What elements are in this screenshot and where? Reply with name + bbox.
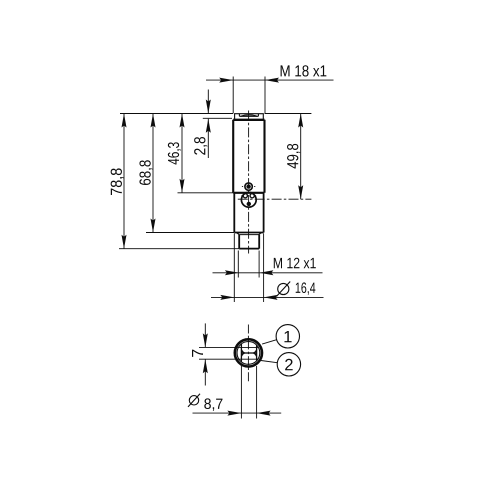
dimension M18 x1 — [206, 77, 334, 114]
LED indicator — [242, 183, 255, 190]
body section line — [233, 192, 264, 194]
dimension diameter 8.7 — [193, 366, 282, 419]
vertical centerline of body — [248, 111, 250, 254]
bottom view vertical centerline — [247, 325, 249, 382]
chamfer to stub — [236, 233, 261, 235]
extension line 78.8 bottom — [119, 248, 239, 250]
plug end view inner circle — [237, 342, 260, 365]
sensor cap / sensing face — [235, 114, 264, 120]
dimension 7 — [199, 323, 258, 385]
dimension 49.8 — [298, 114, 303, 200]
extension line 46.3 bottom — [178, 192, 234, 194]
dimension diameter 16.4 — [211, 234, 324, 303]
pin balloon 1 — [276, 325, 299, 348]
plug keyed profile — [241, 344, 256, 362]
extension line cap top left — [120, 113, 233, 115]
leader to pin balloon 1 — [262, 340, 277, 344]
main body M18 barrel — [233, 120, 264, 193]
lower body section — [234, 193, 263, 233]
dimension 46.3 — [180, 114, 185, 193]
leader to pin balloon 2 — [261, 361, 277, 363]
extension line 68.8 bottom — [146, 232, 234, 234]
dimension M12 x1 — [213, 251, 323, 278]
extension line body top — [203, 117, 232, 119]
horizontal centerline through connector — [238, 198, 312, 200]
pin balloon 2 — [277, 353, 300, 376]
dimension 2.8 — [206, 90, 211, 159]
plug end view outer circle — [235, 339, 262, 366]
M12 plug stub — [239, 235, 259, 249]
dimension 68.8 — [151, 114, 156, 233]
dimension 78.8 — [122, 114, 127, 249]
connector detail cluster — [241, 192, 256, 207]
extension line cap top right — [265, 113, 312, 115]
